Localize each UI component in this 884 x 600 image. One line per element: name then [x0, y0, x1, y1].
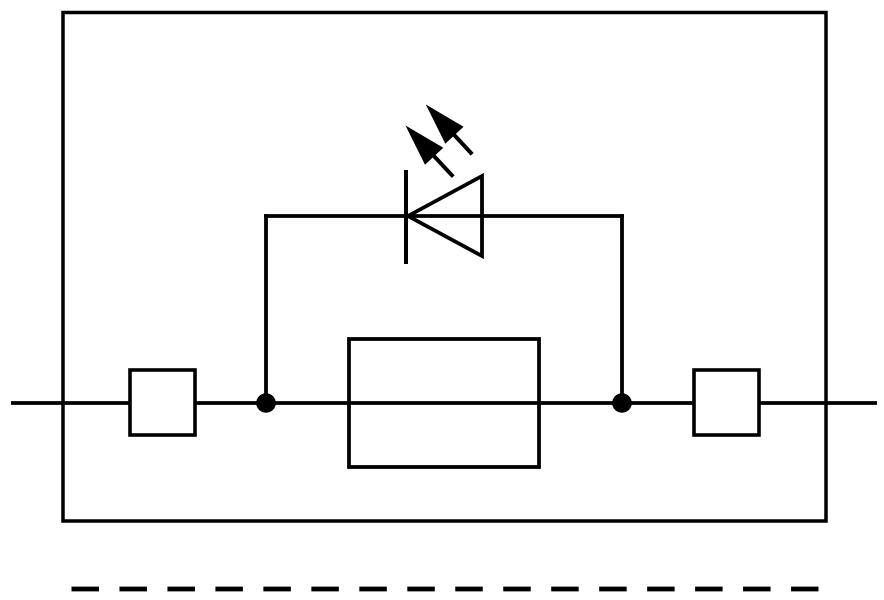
- left lead wire: [11, 401, 130, 405]
- terminal clamp (right): [694, 370, 759, 435]
- wire: node B to right clamp: [622, 401, 694, 405]
- wire: branch riser right (down to node B): [620, 214, 624, 403]
- node A (junction dot): [256, 393, 276, 413]
- LED light arrow 2 (upper-right): [417, 96, 482, 163]
- wire: branch riser left (node A up): [264, 214, 268, 403]
- wire: node A to fuse box: [266, 401, 349, 405]
- node B (junction dot): [612, 393, 632, 413]
- mounting rail (dashed line): [72, 587, 819, 592]
- wire: fuse box to node B: [539, 401, 622, 405]
- right lead wire: [759, 401, 877, 405]
- fuse holder box: [349, 339, 539, 467]
- terminal clamp (left): [130, 370, 195, 435]
- wire: branch top run: [264, 214, 624, 218]
- wire: through fuse box: [349, 401, 539, 405]
- enclosure outline (terminal block housing): [63, 13, 826, 522]
- LED cathode bar: [404, 170, 408, 264]
- LED light arrow 1 (lower-left): [396, 117, 462, 185]
- LED triangle (anode, pointing left): [408, 176, 482, 256]
- wire: left clamp to node A: [195, 401, 266, 405]
